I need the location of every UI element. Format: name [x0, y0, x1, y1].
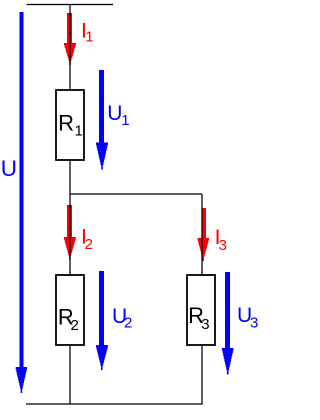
- wire R1 to junction to R2: [69, 160, 71, 275]
- resistor R1: [56, 90, 84, 160]
- wire R2 bottom: [69, 345, 71, 404]
- svg-text:1: 1: [85, 29, 93, 46]
- label I1: [81, 19, 94, 45]
- voltage arrow U1: [96, 70, 108, 170]
- svg-text:1: 1: [75, 123, 83, 140]
- svg-text:2: 2: [71, 317, 79, 334]
- current arrow I3: [198, 208, 210, 261]
- label R1: [58, 111, 83, 140]
- label R3: [188, 303, 210, 333]
- label R2: [58, 304, 79, 334]
- resistor R2: [56, 275, 84, 345]
- svg-text:R: R: [58, 111, 74, 136]
- svg-text:3: 3: [201, 316, 209, 333]
- svg-text:3: 3: [219, 237, 227, 254]
- voltage arrow U3: [222, 272, 234, 375]
- svg-text:U: U: [1, 156, 17, 181]
- current arrow I2: [64, 205, 76, 260]
- svg-text:1: 1: [121, 112, 129, 129]
- label U1: [107, 102, 129, 129]
- label U2: [112, 305, 132, 332]
- wire right branch vertical: [201, 194, 203, 275]
- label U3: [237, 304, 258, 332]
- wire bottom horizontal: [26, 403, 203, 405]
- svg-text:2: 2: [124, 315, 132, 332]
- resistor R3: [187, 275, 215, 345]
- wire R3 bottom: [201, 345, 203, 404]
- wire top vertical into R1: [69, 5, 71, 91]
- svg-text:U: U: [107, 102, 122, 125]
- label I2: [81, 226, 93, 254]
- voltage arrow U2: [96, 271, 108, 370]
- svg-text:3: 3: [250, 315, 258, 332]
- current arrow I1: [64, 13, 76, 65]
- wire middle horizontal: [70, 193, 202, 195]
- voltage arrow U (total voltage, left side): [16, 12, 27, 393]
- svg-text:2: 2: [85, 236, 93, 253]
- wire top horizontal: [27, 4, 114, 6]
- label I3: [215, 226, 227, 254]
